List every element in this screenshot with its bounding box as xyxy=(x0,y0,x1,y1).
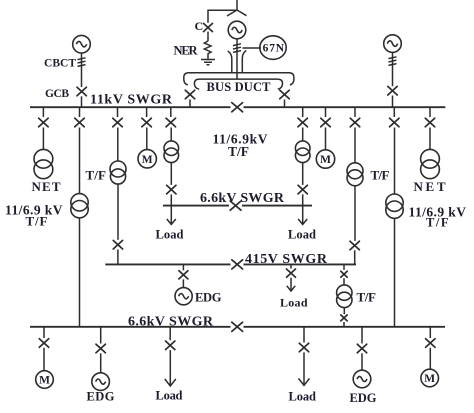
generator G2 circle (left) xyxy=(73,35,91,53)
wire: duct right to 11kV bus xyxy=(284,100,286,108)
feeder F9: tick xyxy=(393,107,395,117)
breaker X bus-duct right xyxy=(280,90,289,99)
wire F2 lower to bottom bus xyxy=(79,218,81,327)
feeder F8: tick xyxy=(354,107,356,117)
wire F7 to motor xyxy=(325,128,327,151)
wire F9 upper xyxy=(394,128,396,195)
breaker X bottom bus-tie xyxy=(232,322,243,331)
svg-text:M: M xyxy=(39,375,50,387)
bus duct outer wall xyxy=(184,73,294,85)
breaker X B2 xyxy=(96,344,105,353)
wire F8 below T/F xyxy=(354,186,356,241)
breaker X F7 xyxy=(321,118,330,127)
bus 11kV SWGR xyxy=(30,106,445,108)
svg-text:415V SWGR: 415V SWGR xyxy=(245,252,328,267)
wire: G2 lead xyxy=(81,53,83,87)
wire F6 to T/F xyxy=(302,128,304,142)
feeder B4: tick xyxy=(303,327,305,343)
feeder F1: tick xyxy=(42,107,44,117)
svg-text:T/F: T/F xyxy=(426,216,449,230)
feeder F5: tick xyxy=(170,107,172,117)
breaker X F2 xyxy=(75,118,84,127)
wire F4 to motor xyxy=(146,128,148,150)
svg-text:M: M xyxy=(320,154,331,166)
svg-text:CBCT: CBCT xyxy=(44,58,76,70)
wire F6 to 6.6kV bus xyxy=(302,194,304,205)
EDG2 sine xyxy=(96,379,106,384)
motor M2 circle xyxy=(316,150,334,168)
transformer F6 (two circles) xyxy=(295,141,310,156)
breaker X F1 xyxy=(39,118,48,127)
load arrow center-right xyxy=(302,206,304,224)
feeder B5: tick xyxy=(361,327,363,344)
breaker X B3 xyxy=(166,341,175,350)
wire B2 to EDG xyxy=(100,353,102,373)
wire: generator to CT xyxy=(236,39,238,79)
breaker C (X) xyxy=(204,23,213,31)
transformer F5 (two circles) xyxy=(164,141,179,156)
svg-text:T/F: T/F xyxy=(371,168,390,183)
generator EDG2 circle xyxy=(92,373,110,391)
wire F1 to NET transformer xyxy=(42,128,44,150)
transformer T/F F3 (two circles) xyxy=(110,161,126,177)
wire: G3 breaker to bus xyxy=(392,96,394,108)
CT squiggle on G3 lead xyxy=(389,57,397,66)
svg-text:NET: NET xyxy=(32,179,61,194)
feeder F10: tick xyxy=(429,107,431,117)
breaker X F10 xyxy=(425,118,434,127)
wire T/F link upper xyxy=(343,278,345,285)
generator G2 sine xyxy=(76,41,86,47)
svg-text:Load: Load xyxy=(280,296,308,310)
breaker X B5 xyxy=(357,344,366,353)
generator G3 circle (right) xyxy=(384,35,402,53)
feeder B3: tick xyxy=(169,327,171,340)
generator G3 sine xyxy=(387,41,397,47)
transformer F8 (two circles) xyxy=(347,163,363,179)
load feeder 415V: tick xyxy=(290,264,292,268)
bus duct funnel right wing xyxy=(242,51,246,73)
bus 415V SWGR xyxy=(105,263,356,265)
wire: generator star drop xyxy=(236,0,238,10)
wire F6 below T/F xyxy=(302,163,304,185)
wire EDG1 xyxy=(182,279,184,287)
breaker X F4 xyxy=(142,118,151,127)
EDG3 sine xyxy=(357,376,367,381)
breaker X 415V bus-tie xyxy=(232,260,243,269)
breaker X F3 lower xyxy=(113,240,122,249)
generator G1 circle xyxy=(228,21,246,39)
breaker X F5 lower xyxy=(167,185,176,194)
wire F3 to 415V breaker xyxy=(117,184,119,240)
wire B6 to motor xyxy=(429,348,431,370)
node: generator wye star point xyxy=(227,10,247,16)
svg-text:Load: Load xyxy=(289,390,317,404)
bus 6.6kV SWGR center xyxy=(163,205,312,207)
svg-text:NER: NER xyxy=(174,44,199,58)
svg-text:M: M xyxy=(424,373,435,385)
svg-text:EDG: EDG xyxy=(87,390,115,404)
CBCT squiggle xyxy=(78,58,86,67)
EDG feeder 415V: tick xyxy=(182,264,184,270)
svg-text:T/F: T/F xyxy=(26,214,48,229)
wire: GCB to bus xyxy=(81,96,83,107)
svg-text:T/F: T/F xyxy=(228,144,249,159)
breaker X B1 xyxy=(39,339,48,348)
transformer 11/6.9kV left (two circles) xyxy=(71,194,88,211)
wire to 67N relay xyxy=(243,47,262,49)
breaker X bus-duct left xyxy=(185,90,194,99)
motor M3 circle xyxy=(36,371,54,389)
T/F link feeder: tick xyxy=(343,264,345,270)
feeder B2: tick xyxy=(100,327,102,344)
load arrow center-left xyxy=(170,206,172,224)
wire F9 lower to bottom bus xyxy=(394,218,396,326)
bus duct funnel left wing xyxy=(228,51,232,73)
transformer NET left (two circles) xyxy=(34,149,53,168)
svg-text:EDG: EDG xyxy=(195,291,222,305)
wire: C to NER xyxy=(207,32,209,41)
svg-text:EDG: EDG xyxy=(350,391,377,405)
feeder F6: tick xyxy=(302,107,304,117)
load arrow B4 xyxy=(303,352,305,385)
svg-text:C: C xyxy=(195,19,204,33)
breaker X F6 xyxy=(298,118,307,127)
transformer 11/6.9kV right (two circles) xyxy=(386,194,403,211)
breaker X F8 xyxy=(350,118,359,127)
svg-text:NET: NET xyxy=(414,179,446,194)
CT squiggle on generator lead xyxy=(233,44,241,53)
breaker X T/F link upper xyxy=(341,271,347,277)
breaker X F6 lower xyxy=(298,185,307,194)
wire F10 to NET transformer xyxy=(429,128,431,150)
transformer NET right (two circles) xyxy=(421,149,440,168)
breaker X F8 lower xyxy=(350,241,359,250)
motor M1 circle xyxy=(138,150,156,168)
relay 67N circle xyxy=(260,36,286,60)
wire B5 to EDG xyxy=(361,353,363,370)
wire T/F link to bottom bus xyxy=(343,322,345,327)
svg-text:6.6kV SWGR: 6.6kV SWGR xyxy=(200,191,285,206)
wire T/F link lower xyxy=(343,308,345,315)
EDG1 sine xyxy=(179,294,189,299)
feeder F3: tick xyxy=(117,107,119,117)
wire F2 upper xyxy=(79,128,81,195)
breaker X B6 xyxy=(426,339,435,348)
bus 6.6kV SWGR bottom xyxy=(30,326,445,328)
generator EDG1 circle xyxy=(175,288,192,305)
load arrow B3 xyxy=(169,350,171,386)
svg-text:T/F: T/F xyxy=(86,168,107,183)
svg-text:Load: Load xyxy=(156,228,184,242)
wire: neutral tap to C breaker xyxy=(208,10,237,23)
breaker X EDG1 xyxy=(179,271,188,279)
svg-text:Load: Load xyxy=(156,389,183,403)
bus duct inner wall xyxy=(194,79,282,89)
wire F5 to T/F xyxy=(170,128,172,142)
feeder F7: tick xyxy=(325,107,327,117)
feeder F4: tick xyxy=(146,107,148,117)
feeder B6: tick xyxy=(429,327,431,338)
svg-text:11kV SWGR: 11kV SWGR xyxy=(90,93,173,108)
svg-text:BUS DUCT: BUS DUCT xyxy=(207,80,272,94)
wire B1 to motor xyxy=(43,348,45,371)
ground xyxy=(201,55,215,65)
wire F5 below T/F xyxy=(170,163,172,185)
load arrow 415V xyxy=(290,278,292,291)
resistor NER (zigzag) xyxy=(204,41,211,55)
wire F5 to 6.6kV bus xyxy=(170,194,172,205)
breaker X F5 xyxy=(166,118,175,127)
svg-text:T/F: T/F xyxy=(357,290,377,305)
breaker X T/F link lower xyxy=(341,315,347,321)
breaker X B4 xyxy=(299,343,308,352)
breaker X F9 xyxy=(390,118,399,127)
wire: G3 lead xyxy=(392,52,394,86)
feeder B1: tick xyxy=(43,327,45,338)
wire F8 to 415V bus xyxy=(354,250,356,264)
generator EDG3 circle xyxy=(353,370,371,388)
breaker X load 415V xyxy=(287,269,296,277)
svg-text:67N: 67N xyxy=(263,43,285,55)
svg-text:GCB: GCB xyxy=(45,88,69,100)
transformer T/F link (two circles) xyxy=(337,285,352,300)
feeder F2: tick xyxy=(79,107,81,117)
generator G1 sine xyxy=(232,27,242,33)
svg-text:Load: Load xyxy=(288,228,316,242)
breaker X F3 xyxy=(113,118,122,127)
wire F8 to T/F xyxy=(354,128,356,164)
svg-text:M: M xyxy=(142,154,153,166)
breaker X 6.6kV bus-tie xyxy=(230,201,241,210)
wire F3 to 415V bus xyxy=(117,250,119,265)
breaker X 11kV bus-tie xyxy=(232,103,243,112)
motor M4 circle xyxy=(421,369,439,387)
wire: duct left to 11kV bus xyxy=(189,100,191,108)
wire F3 to T/F xyxy=(117,128,119,162)
breaker X G3 xyxy=(388,86,397,95)
breaker GCB (X) xyxy=(77,87,86,96)
